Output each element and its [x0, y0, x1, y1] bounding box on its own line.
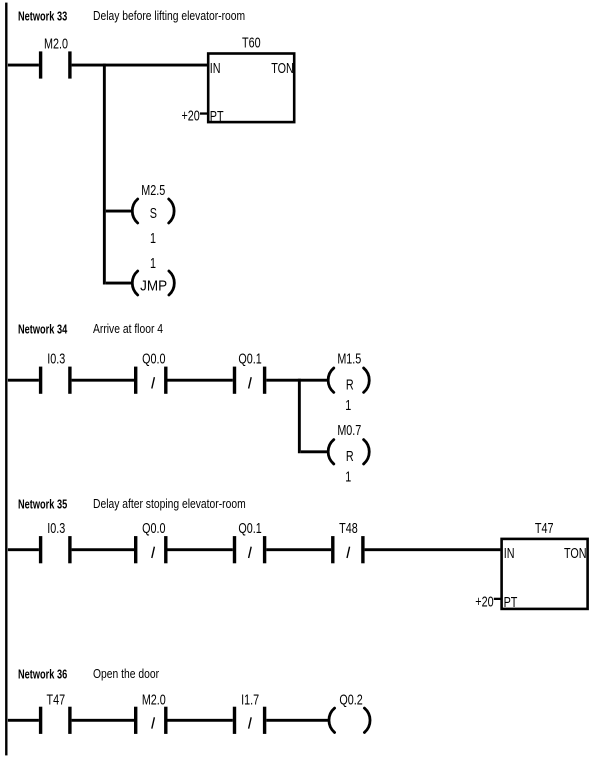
contact M2.0	[39, 51, 42, 78]
svg-text:+20: +20	[182, 107, 200, 124]
svg-text:M0.7: M0.7	[337, 421, 361, 438]
svg-text:T48: T48	[339, 519, 358, 536]
svg-text:M2.5: M2.5	[141, 181, 165, 198]
wire I0.3 to Q0.0	[72, 548, 134, 551]
wire I1.7 to coil Q0.2	[266, 719, 329, 722]
svg-text:1: 1	[345, 396, 351, 413]
svg-text:Delay before lifting elevator-: Delay before lifting elevator-room	[93, 10, 245, 23]
wire rail to contact I0.3	[8, 379, 39, 382]
svg-text:1: 1	[150, 254, 156, 271]
svg-text:Network 33: Network 33	[18, 10, 67, 24]
contact Q0.1 NC	[233, 536, 236, 563]
contact Q0.0 NC	[134, 536, 137, 563]
svg-text:Arrive at floor 4: Arrive at floor 4	[93, 323, 164, 336]
svg-text:Delay after stoping elevator-r: Delay after stoping elevator-room	[93, 498, 246, 511]
contact I0.3	[39, 536, 42, 563]
svg-text:PT: PT	[504, 593, 518, 610]
wire contact M2.0 to timer T60	[72, 64, 208, 67]
wire PT tick	[200, 112, 207, 114]
svg-text:1: 1	[150, 229, 156, 246]
timer T47	[502, 539, 588, 609]
coil JMP	[132, 271, 137, 295]
contact M2.0 NC	[134, 707, 137, 734]
svg-text:M2.0: M2.0	[142, 691, 166, 708]
wire branch vertical	[103, 64, 106, 285]
svg-text:PT: PT	[210, 107, 224, 124]
svg-text:Q0.1: Q0.1	[238, 350, 261, 367]
svg-text:T60: T60	[242, 34, 261, 51]
svg-text:TON: TON	[271, 59, 294, 76]
wire branch to coil JMP	[106, 282, 132, 285]
svg-text:S: S	[150, 204, 157, 221]
svg-text:T47: T47	[535, 519, 554, 536]
wire rail to contact I0.3	[8, 548, 39, 551]
wire I0.3 to Q0.0	[72, 379, 134, 382]
contact I1.7 NC	[233, 707, 236, 734]
wire branch vertical net34	[298, 379, 301, 454]
svg-text:R: R	[346, 376, 354, 393]
svg-text:I0.3: I0.3	[47, 519, 65, 536]
wire T48 to timer T47	[365, 548, 501, 551]
wire branch to coil S	[106, 210, 132, 213]
svg-text:IN: IN	[504, 544, 515, 561]
svg-text:1: 1	[345, 468, 351, 485]
svg-text:Q0.1: Q0.1	[238, 519, 261, 536]
wire rail to contact M2.0	[8, 64, 39, 67]
svg-text:M1.5: M1.5	[337, 350, 361, 367]
contact T48 NC	[331, 536, 334, 563]
svg-text:Q0.0: Q0.0	[142, 350, 165, 367]
svg-text:T47: T47	[47, 691, 66, 708]
contact Q0.1 NC	[233, 367, 236, 394]
wire rail to contact T47	[8, 719, 39, 722]
contact I0.3	[39, 367, 42, 394]
wire branch to coil M0.7	[301, 450, 329, 453]
wire T47 to M2.0	[72, 719, 134, 722]
svg-text:Network 35: Network 35	[18, 498, 67, 512]
svg-text:Q0.0: Q0.0	[142, 519, 165, 536]
contact Q0.0 NC	[134, 367, 137, 394]
svg-text:JMP: JMP	[140, 278, 167, 295]
svg-text:Network 36: Network 36	[18, 668, 67, 682]
contact T47	[39, 707, 42, 734]
svg-text:I0.3: I0.3	[47, 350, 65, 367]
left power rail	[5, 3, 7, 756]
svg-text:TON: TON	[564, 544, 587, 561]
svg-text:Q0.2: Q0.2	[339, 691, 362, 708]
svg-text:Open the door: Open the door	[93, 668, 159, 681]
svg-text:I1.7: I1.7	[241, 691, 259, 708]
wire Q0.0 to Q0.1	[168, 379, 233, 382]
wire M2.0 to I1.7	[168, 719, 233, 722]
svg-text:IN: IN	[210, 59, 221, 76]
svg-text:M2.0: M2.0	[44, 35, 68, 52]
svg-text:+20: +20	[475, 593, 493, 610]
wire Q0.0 to Q0.1	[168, 548, 233, 551]
svg-text:Network 34: Network 34	[18, 323, 68, 337]
wire Q0.1 to T48	[266, 548, 331, 551]
svg-text:R: R	[346, 447, 354, 464]
wire Q0.1 to coil M1.5	[266, 379, 328, 382]
timer T60	[208, 54, 294, 123]
wire PT tick	[494, 598, 501, 600]
